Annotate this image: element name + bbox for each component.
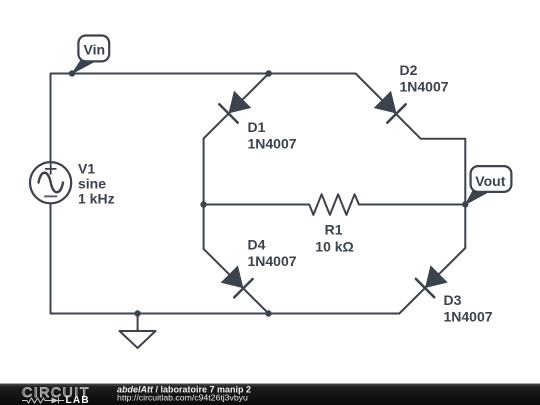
svg-text:R1: R1 xyxy=(325,221,343,237)
svg-text:D1: D1 xyxy=(248,119,266,135)
svg-text:1N4007: 1N4007 xyxy=(248,253,297,269)
svg-text:D2: D2 xyxy=(400,62,418,78)
svg-text:http://circuitlab.com/c94t26tj: http://circuitlab.com/c94t26tj3vbyu xyxy=(117,393,248,403)
svg-text:D3: D3 xyxy=(444,292,462,308)
svg-text:1N4007: 1N4007 xyxy=(444,308,493,324)
svg-text:V1: V1 xyxy=(78,160,95,176)
svg-text:1N4007: 1N4007 xyxy=(248,135,297,151)
svg-text:1N4007: 1N4007 xyxy=(400,79,449,95)
svg-text:1 kHz: 1 kHz xyxy=(78,191,115,207)
svg-text:Vout: Vout xyxy=(475,173,505,189)
svg-text:10 kΩ: 10 kΩ xyxy=(315,239,353,255)
svg-text:Vin: Vin xyxy=(84,42,106,58)
svg-text:LAB: LAB xyxy=(66,395,90,405)
svg-text:sine: sine xyxy=(78,176,106,192)
svg-text:D4: D4 xyxy=(248,237,266,253)
